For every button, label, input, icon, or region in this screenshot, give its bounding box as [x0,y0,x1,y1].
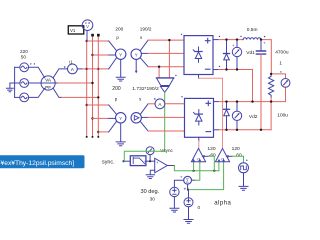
svg-text:+: + [232,43,235,48]
voltage sensor Vsync (line-line) [157,78,174,92]
T2 primary fan wires [109,105,117,132]
svg-text:Vd2: Vd2 [249,114,258,120]
svg-text:s: s [139,97,142,102]
wire summer output to alpha2 value input (green) [188,162,224,189]
junction dot tap row3 [158,66,160,68]
wire 30deg source to summer [174,180,183,187]
wire green sensor to comparator input [124,151,164,161]
svg-text:60: 60 [236,153,242,159]
alpha controller AC2 [215,148,229,161]
BT2 gate wire to alpha1 [198,137,200,141]
marker square source [246,160,247,161]
wire comparator to op-amp [145,160,155,162]
svg-text:α: α [197,157,200,162]
svg-text:1: 1 [279,60,282,66]
transformer T1 secondary winding [131,49,141,59]
wire ammeter A2 to bridge2 [165,103,185,105]
wire T2 row1 to ammeter [148,103,155,105]
polarity marker ammeter A2 [154,98,156,100]
svg-text:-60: -60 [209,153,216,159]
wire T1 secondary row3 to bridge1 [148,66,184,68]
freewheel diode D2 [224,102,230,130]
wire summer right to alpha1 value input (green) [192,179,195,181]
svg-text:Y: Y [135,52,138,57]
wire sync to comparator [124,160,130,162]
ac source VSB [15,79,29,88]
wire T2 row3 to bridge2 [148,130,184,132]
svg-text:0.5m: 0.5m [247,27,258,33]
svg-text:220: 220 [20,49,28,54]
svg-text:120: 120 [207,146,215,152]
polarity marker ammeter [64,66,66,68]
wire bus1 to T1 row1 [87,40,109,42]
svg-text:200: 200 [115,27,123,32]
ammeter A2 [155,99,165,109]
dc source 30deg [170,187,179,196]
svg-text:alpha: alpha [214,201,231,207]
wire meter to ammeter (phase A) [53,69,67,78]
svg-text:p: p [115,97,118,102]
svg-text:s: s [140,35,143,40]
svg-text:V: V [86,24,89,29]
svg-text:sync.: sync. [102,159,115,165]
transformer T2 secondary winding (delta) [131,113,141,123]
BT2 minus label [206,131,211,133]
node sync [123,160,125,162]
bus wire 3 [97,35,99,136]
svg-text:+: + [263,41,266,46]
wire bus2 to T2 row2 [93,117,109,119]
BT2 plus label [206,101,211,106]
ac source VSA [15,63,29,72]
svg-text:A: A [71,67,75,73]
wire sensor output (green) [164,92,166,151]
ground (source neutral) [6,83,14,92]
ac source VSC [15,93,29,102]
junction dots DC rails [225,38,272,131]
op-amp minus input to ground [146,170,155,178]
wire bus3 to T2 row3 [98,131,108,133]
dot markers source A [30,63,35,64]
wire voltmeter to bus1 [86,31,88,42]
svg-text:4700u: 4700u [275,50,289,56]
comparator block [130,156,146,166]
wire ammeter to bus1 [77,68,82,70]
T2 primary neutral to ground [116,123,125,146]
svg-text:Y: Y [119,52,122,57]
voltage sensor across R1 [271,74,285,102]
thyristor bridge BT2 [185,98,214,137]
freewheel diode D1 [224,40,230,70]
inductor L1 [243,38,261,40]
transformer T2 primary winding [116,113,126,123]
wire tap row3 to sync sensor [158,67,160,78]
wire bus to T1 row3 [87,68,109,70]
svg-text:120: 120 [232,146,240,152]
wire enable to alpha2 base [218,162,220,170]
T1 secondary neutral stub [135,59,137,70]
wire enable to alpha1 base [193,162,195,170]
wire alpha1 sync input (green) [205,155,208,157]
svg-text:0: 0 [198,205,201,210]
wire bridge2+ rail [218,101,271,103]
T1 primary neutral to ground [116,59,125,81]
svg-text:+: + [183,186,186,191]
BT1 gate wire to alpha2 [198,75,200,79]
wire op-amp output (green) to enable line [167,165,174,167]
wire alpha2 sync input from square source (green) [229,155,232,157]
wire square source to ground [239,173,248,190]
wire (source neutral vertical) [14,67,16,97]
svg-text:V1: V1 [70,28,76,33]
square wave source [239,163,249,173]
T2 secondary fan wires [140,104,148,131]
wire T1 secondary row2 to bridge1 [148,52,184,54]
svg-text:200: 200 [112,86,121,92]
terminal square bus3 [97,34,100,37]
wire T2 row2 to bridge2 [148,116,184,118]
BT1 minus label [205,68,210,70]
wire phase C source to meter [29,88,45,97]
wire meter phase B out [55,82,58,84]
BT1 plus label [205,38,210,43]
svg-text:Vd1: Vd1 [246,50,255,56]
window title bar fragment [0,155,85,168]
phase marker bridge2 [181,96,182,97]
svg-text:50: 50 [21,55,27,60]
svg-text:30 deg.: 30 deg. [141,189,160,195]
svg-text:Y: Y [119,116,122,121]
wire 0 source to ground [184,207,193,224]
summer block S1 [184,176,192,184]
svg-text:1.732*190/2: 1.732*190/2 [132,86,159,92]
svg-text:190/2: 190/2 [140,27,152,32]
wire phase B source to meter [29,82,42,84]
svg-text:+: + [156,160,159,165]
alpha controller AC1 [191,148,205,161]
wire bus2 to T1 row2 [93,54,109,56]
svg-text:100u: 100u [277,113,288,119]
wire summer bottom node [187,184,189,189]
wire DC+ rail bridge1 [218,40,271,74]
op-amp comparator U1 [155,158,168,173]
ammeter A1 [68,64,78,74]
wire phase A source to meter [29,67,45,77]
junction dot tap row1 [168,39,170,41]
BT1 thyristor glyph [193,47,202,62]
wire T1 secondary row1 to bridge1 [148,39,184,41]
voltage sensor Vd1 [232,40,241,70]
svg-text:A: A [158,102,162,108]
thyristor bridge BT1 [184,36,213,75]
node markers top rail [219,36,265,67]
T1 primary fan wires [109,41,117,69]
terminal square bus2 [91,34,94,37]
wire meter phase C out [53,88,61,97]
phase marker bridge1 [181,34,182,35]
svg-text:VA: VA [45,78,52,83]
bus wire 2 [92,35,94,136]
svg-text:p: p [116,35,119,40]
wire DC mid rail bridge1- [218,70,253,102]
svg-text:30: 30 [150,196,156,201]
polarity marker load sensor [280,71,281,72]
svg-text:PF: PF [45,85,51,90]
T1 secondary fan wires [140,40,148,67]
BT2 thyristor glyph [194,110,203,125]
svg-text:Vsync: Vsync [160,148,173,153]
bus wire 1 [86,41,88,137]
dc source 0 [184,190,193,207]
junction dots enable line [193,170,216,172]
voltmeter V1 [82,20,93,31]
voltmeter Vsync [146,147,154,162]
load resistor R1 [269,74,274,98]
capacitor C1 4700u [256,40,265,55]
VA/PF meter W1 [41,76,55,90]
wire tap row1 to sync sensor [168,40,170,77]
svg-text:α: α [221,157,224,162]
junction dots on buses [86,40,100,138]
transformer T1 primary winding [116,49,126,59]
svg-text:¥ex¥Thy-12psil.psimsch]: ¥ex¥Thy-12psil.psimsch] [1,160,75,167]
wire bridge2- rail [218,129,271,131]
voltage probe label box V1 [68,26,83,34]
voltage sensor Vd2 [232,102,241,130]
wire 30deg source to ground [170,197,179,212]
svg-text:i1: i1 [69,60,73,65]
wire bus1 to T2 row1 [87,104,109,106]
